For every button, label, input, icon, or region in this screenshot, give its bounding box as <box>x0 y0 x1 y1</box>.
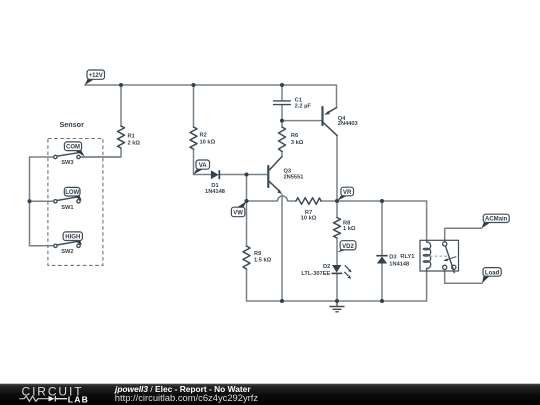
junction node VR <box>335 199 339 203</box>
resistor R6 <box>279 127 286 152</box>
flag ACMain <box>482 214 510 228</box>
junction rail-R2 <box>192 83 196 87</box>
svg-text:D2: D2 <box>323 264 330 270</box>
wire SW3 right terminal to R1 <box>79 156 122 158</box>
wire R1 top lead <box>120 85 122 126</box>
svg-text:2 kΩ: 2 kΩ <box>128 141 141 147</box>
svg-text:VW: VW <box>233 211 243 217</box>
flag VR <box>337 187 353 201</box>
svg-text:10 kΩ: 10 kΩ <box>200 140 216 146</box>
svg-text:R2: R2 <box>200 133 207 139</box>
svg-text:VA: VA <box>199 163 208 169</box>
wire sensor common bus <box>29 157 31 246</box>
flag VA <box>193 160 209 174</box>
wire Q3 emitter to ground rail <box>281 195 283 302</box>
wire C1 bottom to node <box>281 105 283 121</box>
wire D2 cathode to ground rail <box>336 274 338 302</box>
svg-text:ACMain: ACMain <box>485 217 508 223</box>
flag +12V <box>85 70 105 85</box>
wire R6 top lead <box>281 121 283 127</box>
transistor Q3 <box>268 157 282 195</box>
ground <box>330 301 345 312</box>
junction D2-ground <box>335 299 339 303</box>
svg-text:http://circuitlab.com/c6z4yc29: http://circuitlab.com/c6z4yc292yrfz <box>115 392 259 403</box>
svg-text:HIGH: HIGH <box>65 235 80 241</box>
switch SW2 <box>54 241 81 247</box>
relay RLY1 <box>420 240 459 273</box>
wire VW to R9 top <box>246 201 248 246</box>
wire relay coil top lead <box>426 201 428 240</box>
junction VR-D3 <box>380 199 384 203</box>
diode D3 <box>376 256 387 264</box>
junction rail-R1 <box>119 83 123 87</box>
svg-text:2N4403: 2N4403 <box>338 121 358 127</box>
junction sensor bus <box>28 199 32 203</box>
svg-text:2N5551: 2N5551 <box>284 175 304 181</box>
wire relay coil bottom lead <box>426 271 428 301</box>
footer CircuitLab logo <box>19 384 89 404</box>
switch SW3 <box>54 152 81 158</box>
flag LOW <box>64 187 82 200</box>
sensor enclosure dashed box <box>48 139 103 266</box>
svg-text:R1: R1 <box>128 134 135 140</box>
svg-text:SW3: SW3 <box>61 160 73 166</box>
wire VW to R7 with hop over emitter <box>247 196 297 201</box>
wire ACMain to relay common <box>445 228 482 242</box>
resistor R2 <box>190 127 197 149</box>
junction node VW <box>245 199 249 203</box>
wire relay NC contact to Load <box>445 269 483 283</box>
wire R2 top lead <box>193 85 195 127</box>
junction rail-C1 <box>280 83 284 87</box>
resistor R7 <box>296 198 321 205</box>
svg-text:+12V: +12V <box>89 73 103 79</box>
switch SW1 <box>54 197 81 203</box>
svg-text:SW2: SW2 <box>61 249 73 255</box>
resistor R1 <box>118 126 125 148</box>
wire R8 bottom to D2 anode <box>336 238 338 265</box>
svg-text:RLY1: RLY1 <box>400 254 414 260</box>
wire ground rail <box>247 300 427 302</box>
wire +12V rail <box>85 85 337 108</box>
svg-text:VR: VR <box>343 190 352 196</box>
junction D1-Q3base-VW <box>245 173 249 177</box>
resistor R9 <box>243 246 250 269</box>
svg-text:1N4148: 1N4148 <box>389 262 409 268</box>
wire SW1 left lead <box>30 200 56 202</box>
svg-text:LTL-307EE: LTL-307EE <box>301 271 330 277</box>
wire R7 to node VR <box>321 200 337 202</box>
wire R6 bottom to Q3 collector <box>281 152 283 157</box>
wire R8 top lead <box>336 201 338 218</box>
svg-text:COM: COM <box>66 145 80 151</box>
wire R9 bottom lead <box>246 269 248 301</box>
svg-text:LAB: LAB <box>68 395 89 405</box>
diode D1 <box>211 170 219 179</box>
flag VW <box>231 201 246 216</box>
wire node VA to D1 anode <box>194 174 211 176</box>
wire D1 cathode to Q3 base <box>219 174 267 176</box>
svg-text:1 kΩ: 1 kΩ <box>343 226 356 232</box>
wire node A to node VW vertical <box>246 175 248 202</box>
svg-text:1N4148: 1N4148 <box>205 189 225 195</box>
LED D2 <box>332 265 352 279</box>
svg-text:D3: D3 <box>389 255 396 261</box>
footer bar <box>0 384 540 405</box>
svg-text:10 kΩ: 10 kΩ <box>301 216 317 222</box>
wire R1 bottom to SW3 <box>80 148 121 157</box>
junction D3-ground rail <box>380 299 384 303</box>
flag Load <box>482 268 501 284</box>
capacitor C1 <box>274 101 291 105</box>
svg-text:Sensor: Sensor <box>60 120 85 129</box>
svg-text:3 kΩ: 3 kΩ <box>291 140 304 146</box>
wire SW2 left lead <box>30 245 56 247</box>
flag HIGH <box>63 232 82 245</box>
wire node VR to D3 to relay coil <box>337 200 427 202</box>
svg-text:R6: R6 <box>291 133 298 139</box>
transistor Q4 <box>323 107 338 135</box>
wire D3 top lead <box>381 201 383 256</box>
flag COM <box>64 142 84 157</box>
junction C1-R6-Q4base <box>280 119 284 123</box>
svg-text:2.2 µF: 2.2 µF <box>295 104 312 110</box>
svg-text:C1: C1 <box>295 98 302 104</box>
wire Q4 collector to node VR <box>336 135 338 201</box>
svg-text:R9: R9 <box>254 251 261 257</box>
wire D3 bottom lead <box>381 263 383 301</box>
junction emitter-ground rail <box>280 299 284 303</box>
resistor R8 <box>334 218 341 239</box>
svg-text:Q3: Q3 <box>284 168 292 174</box>
svg-text:Load: Load <box>485 270 500 276</box>
wire C1 top lead <box>281 85 283 100</box>
svg-text:1.5 kΩ: 1.5 kΩ <box>254 258 272 264</box>
wire SW3 left lead <box>30 156 56 158</box>
svg-text:SW1: SW1 <box>61 205 73 211</box>
wire R2 bottom to node VA <box>193 149 195 175</box>
wire node to Q4 base <box>282 120 321 122</box>
svg-text:VD2: VD2 <box>342 244 354 250</box>
svg-text:LOW: LOW <box>65 190 79 196</box>
flag VD2 <box>337 241 356 253</box>
